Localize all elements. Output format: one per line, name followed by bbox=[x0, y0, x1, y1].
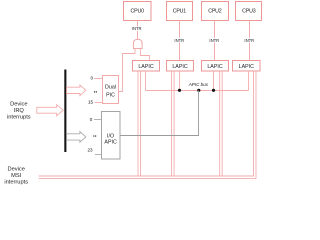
label INTR (CPU1) bbox=[174, 38, 184, 43]
LAPIC1 bbox=[167, 61, 194, 72]
wire LAPIC2 down to APIC bus bbox=[213, 71, 215, 91]
svg-text:APIC: APIC bbox=[104, 139, 117, 145]
wire APIC bus horizontal bbox=[146, 90, 249, 92]
wire LAPIC3 MSI double line with corner into MSI bus bbox=[39, 71, 256, 178]
svg-text:CPU0: CPU0 bbox=[131, 9, 145, 15]
wire LAPIC3 down to APIC bus bbox=[248, 71, 250, 91]
arrow bar to IOAPIC (gray) bbox=[67, 132, 86, 143]
svg-text:0: 0 bbox=[90, 117, 93, 122]
node junction IOAPIC/APIC bus bbox=[197, 89, 200, 92]
svg-text:0: 0 bbox=[91, 75, 94, 80]
svg-text:23: 23 bbox=[87, 148, 93, 153]
bus bar (interrupt input bus) bbox=[64, 70, 66, 153]
node junction LAPIC1/APIC bus bbox=[178, 89, 181, 92]
label Device MSI interrupts bbox=[4, 166, 28, 185]
svg-text:Dual: Dual bbox=[105, 84, 116, 90]
wire gate right input from LAPIC0 bbox=[140, 49, 149, 60]
arrow bar to Dual PIC bbox=[67, 85, 86, 96]
wire gate left input from Dual PIC bbox=[119, 49, 135, 92]
Dual PIC U1 bbox=[103, 76, 119, 104]
label .. (PIC inputs) bbox=[94, 91, 97, 92]
svg-text:LAPIC: LAPIC bbox=[239, 64, 254, 70]
wire CPU2 INTR to LAPIC2 bbox=[214, 21, 216, 61]
CPU1 bbox=[167, 2, 193, 21]
svg-text:INTR: INTR bbox=[244, 38, 254, 43]
svg-text:IRQ: IRQ bbox=[14, 108, 25, 114]
I/O APIC U2 bbox=[102, 112, 121, 160]
wire CPU1 INTR to LAPIC1 bbox=[179, 21, 181, 61]
wire PIC input 15 bbox=[95, 102, 103, 104]
gate (INTR selector for CPU0) bbox=[133, 39, 142, 48]
svg-text:INTR: INTR bbox=[209, 38, 219, 43]
svg-text:APIC bus: APIC bus bbox=[188, 82, 209, 87]
LAPIC3 bbox=[233, 61, 261, 72]
arrow device IRQ into bar bbox=[37, 105, 64, 116]
wire IOAPIC input 23 bbox=[95, 154, 102, 156]
CPU3 bbox=[236, 2, 262, 21]
wire LAPIC1 down to APIC bus bbox=[179, 71, 181, 91]
wire LAPIC1 MSI double line bbox=[172, 71, 175, 176]
CPU2 bbox=[202, 2, 229, 21]
svg-text:interrupts: interrupts bbox=[7, 115, 31, 121]
svg-text:LAPIC: LAPIC bbox=[138, 64, 153, 70]
label INTR (CPU3) bbox=[244, 38, 254, 43]
svg-text:LAPIC: LAPIC bbox=[172, 64, 187, 70]
svg-text:CPU1: CPU1 bbox=[173, 9, 187, 15]
LAPIC2 bbox=[202, 61, 229, 72]
svg-text:LAPIC: LAPIC bbox=[207, 64, 222, 70]
svg-text:PIC: PIC bbox=[106, 93, 115, 99]
node junction LAPIC2/APIC bus bbox=[212, 89, 215, 92]
wire IOAPIC input 0 bbox=[94, 119, 102, 121]
CPU0 bbox=[124, 2, 152, 21]
svg-text:MSI: MSI bbox=[11, 173, 22, 179]
wire LAPIC0 MSI double line bbox=[138, 71, 141, 176]
svg-text:Device: Device bbox=[8, 166, 25, 172]
wire IOAPIC output to APIC bus bbox=[120, 91, 199, 136]
svg-text:Device: Device bbox=[10, 101, 27, 107]
svg-text:CPU3: CPU3 bbox=[242, 9, 256, 15]
label INTR (CPU0) bbox=[132, 26, 142, 31]
label INTR (CPU2) bbox=[209, 38, 219, 43]
svg-text:INTR: INTR bbox=[174, 38, 184, 43]
svg-text:15: 15 bbox=[88, 100, 94, 105]
wire CPU3 INTR to LAPIC3 bbox=[249, 21, 251, 62]
wire LAPIC0 down to APIC bus bbox=[145, 71, 147, 91]
wire Dual PIC INTR output to gate riser bbox=[119, 91, 123, 93]
wire CPU0 INTR to gate bbox=[137, 21, 139, 40]
wire PIC input 0 bbox=[94, 78, 102, 80]
LAPIC0 bbox=[133, 61, 160, 72]
svg-text:INTR: INTR bbox=[132, 26, 142, 31]
svg-text:interrupts: interrupts bbox=[4, 180, 28, 186]
label .. (IOAPIC inputs) bbox=[93, 135, 96, 136]
svg-text:CPU2: CPU2 bbox=[208, 9, 222, 15]
wire LAPIC2 MSI double line bbox=[220, 71, 223, 176]
label Device IRQ interrupts bbox=[7, 101, 31, 120]
